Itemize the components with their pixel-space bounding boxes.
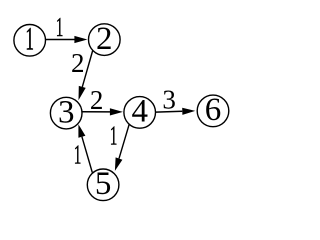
node 2 circle — [89, 24, 121, 56]
wire edge 5->3 — [82, 137, 92, 173]
node 4 circle — [124, 97, 156, 129]
node 5 circle — [87, 169, 119, 201]
svg-text:2: 2 — [90, 85, 104, 115]
arrowhead edge 3->4 — [110, 108, 123, 115]
arrowhead edge 2->3 — [79, 86, 86, 100]
arrowhead edge 5->3 — [78, 124, 85, 138]
svg-text:2: 2 — [71, 48, 85, 78]
svg-text:1: 1 — [74, 139, 82, 169]
svg-text:3: 3 — [162, 84, 176, 114]
wire edge 4->6 — [156, 110, 183, 113]
node 6 circle — [197, 95, 229, 127]
svg-text:2: 2 — [96, 21, 113, 57]
svg-text:3: 3 — [58, 94, 75, 130]
arrowhead edge 1->2 — [74, 36, 87, 43]
wire edge 4->5 — [119, 124, 129, 159]
node 3 circle — [50, 97, 82, 129]
svg-text:1: 1 — [25, 22, 34, 58]
svg-text:5: 5 — [95, 166, 112, 202]
svg-text:1: 1 — [110, 120, 118, 150]
node 1 circle — [14, 25, 46, 57]
wire edge 3->4 — [82, 111, 111, 113]
svg-text:1: 1 — [56, 12, 64, 42]
wire edge 1->2 — [46, 39, 76, 41]
svg-text:4: 4 — [131, 94, 148, 130]
wire edge 2->3 — [82, 51, 92, 87]
arrowhead edge 4->6 — [182, 108, 195, 115]
svg-text:6: 6 — [205, 92, 222, 128]
arrowhead edge 4->5 — [115, 157, 123, 171]
